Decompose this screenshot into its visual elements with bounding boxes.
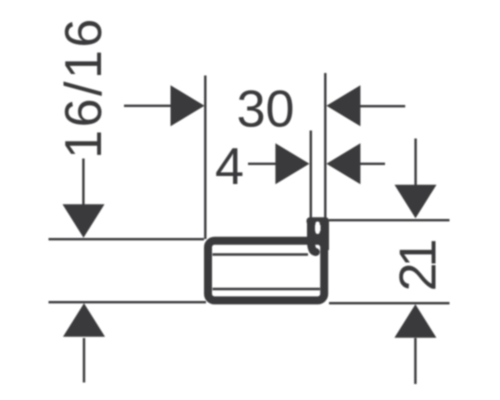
dim 30 leader tail left [124,105,172,107]
dim 21 upper stem [414,139,416,187]
reference line H4 (lower right wall line) [329,302,450,304]
arrowhead dim 4 pointing left [326,143,360,184]
reference line H3 (upper right wall line) [329,219,450,221]
dim 16/16 upper stem [82,159,84,207]
reference line H2 (lower left wall line) [49,301,207,303]
arrowhead dim 16/16 pointing up [63,303,105,337]
extension line V2 (right edge of hook, x=325) [324,73,326,218]
arrowhead dim 16/16 pointing down [63,204,105,238]
svg-text:21: 21 [390,241,448,292]
body outline (product profile rounded rectangle) [208,241,324,301]
dim 4 leader tail right [360,163,385,165]
dim 16/16 lower stem [83,338,85,383]
inner lip line lower [213,288,321,290]
reference line H1 (upper left wall line) [49,238,205,240]
arrowhead dim 4 pointing right [275,143,309,184]
svg-text:30: 30 [237,81,295,139]
hook gap filler below slot [314,231,323,244]
dim 30 leader tail right [360,105,405,107]
hook slot (white notch) [315,222,319,235]
dim 4 leader tail left [248,163,282,165]
hook cap (top of mounting hook) [307,217,330,225]
arrowhead dim 21 pointing down [395,185,437,219]
svg-text:4: 4 [215,138,244,196]
inner lip line upper [213,253,309,255]
svg-text:16/16: 16/16 [55,16,113,159]
hook right leg [321,220,330,250]
arrowhead dim 21 pointing up [394,304,436,338]
extension line V1 (left edge of body, x=205) [204,76,206,240]
arrowhead dim 30 pointing left [326,85,360,126]
dim 21 lower stem [414,338,416,384]
arrowhead dim 30 pointing right [171,85,205,126]
hook left leg with J-curve [311,222,316,253]
extension line V3 (hook left face, x=311) [310,131,312,219]
